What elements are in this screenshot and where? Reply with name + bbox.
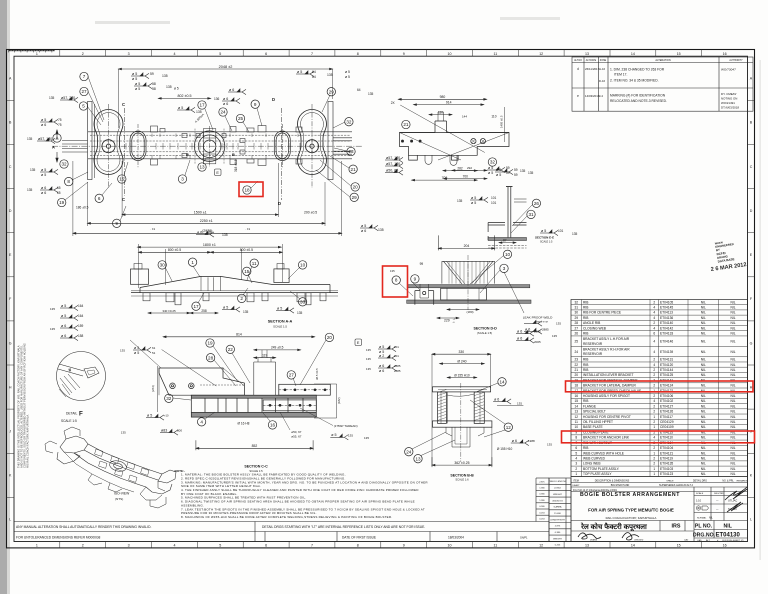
svg-text:CHECKED: CHECKED (634, 540, 644, 542)
svg-text:4: 4 (174, 544, 176, 548)
dimension 258 (190, 312, 218, 314)
svg-text:(264): (264) (151, 385, 155, 392)
svg-text:HOUSING ASSLY FOR SPIGOT: HOUSING ASSLY FOR SPIGOT (583, 394, 630, 398)
svg-text:NIL: NIL (730, 326, 735, 330)
svg-text:2: 2 (653, 446, 655, 450)
svg-text:SECTION B-B: SECTION B-B (450, 474, 474, 478)
weld symbol (196, 231, 214, 237)
svg-text:CE04109: CE04109 (660, 425, 674, 429)
svg-text:ø 6: ø 6 (517, 329, 522, 333)
weld symbol (40, 169, 58, 175)
grid band numbers top/bottom (60, 50, 702, 548)
weld symbol (60, 305, 78, 311)
dimension 700 (444, 178, 487, 180)
weld symbol (177, 107, 195, 113)
svg-text:31: 31 (528, 212, 534, 217)
svg-text:ø50, 65: ø50, 65 (386, 168, 398, 172)
svg-text:8. MACHINING OF Ø155-H10 SHAL: 8. MACHINING OF Ø155-H10 SHALL BE DONE A… (181, 515, 392, 519)
svg-text:65: 65 (57, 186, 61, 190)
svg-text:ø 6: ø 6 (197, 230, 202, 234)
callout A (53, 134, 61, 142)
svg-text:135: 135 (166, 85, 172, 89)
weld symbol (37, 138, 55, 144)
svg-text:ET04110: ET04110 (660, 436, 673, 440)
svg-text:BRACKET ASSLY R.H.FOR AIR: BRACKET ASSLY R.H.FOR AIR (583, 348, 630, 352)
callout 32 (345, 118, 353, 126)
svg-text:ET04102: ET04102 (660, 399, 673, 403)
svg-text:135: 135 (366, 367, 371, 371)
svg-text:135: 135 (556, 322, 561, 326)
svg-text:14: 14 (631, 544, 635, 548)
svg-text:135: 135 (27, 188, 33, 192)
svg-text:87: 87 (503, 239, 507, 243)
dimension 204 (438, 235, 494, 250)
dimension 980 (398, 98, 486, 100)
svg-text:135: 135 (364, 436, 369, 440)
plan view lower dimension lines (73, 161, 342, 236)
svg-text:ET04139: ET04139 (660, 350, 673, 354)
svg-text:NIL: NIL (730, 363, 735, 367)
svg-text:6: 6 (265, 52, 267, 56)
svg-text:TOP PLATE ASSLY: TOP PLATE ASSLY (583, 472, 612, 476)
svg-text:ø83: ø83 (161, 428, 167, 432)
svg-text:BRACKET FOR ANCHOR LINK: BRACKET FOR ANCHOR LINK (583, 436, 630, 440)
svg-text:· ±1: · ±1 (150, 227, 155, 231)
svg-text:16: 16 (574, 394, 578, 398)
svg-text:ET04125: ET04125 (660, 373, 673, 377)
svg-text:6: 6 (575, 446, 577, 450)
svg-text:D: D (272, 97, 275, 102)
svg-text:15 480: 15 480 (554, 513, 561, 515)
svg-text:ZONE: ZONE (600, 60, 607, 62)
weld symbol (524, 320, 542, 326)
svg-text:ø 5: ø 5 (297, 70, 302, 74)
svg-text:8: 8 (357, 544, 359, 548)
svg-text:ET04119: ET04119 (660, 457, 673, 461)
svg-text:ø 5: ø 5 (135, 87, 140, 91)
svg-text:110: 110 (438, 110, 443, 114)
dimension 292 (452, 170, 487, 172)
svg-text:UTLIAC: UTLIAC (728, 498, 737, 502)
svg-text:ø 5: ø 5 (345, 75, 350, 79)
callout 10 (503, 250, 511, 258)
dimension (437, 317, 459, 319)
svg-text:135: 135 (366, 348, 371, 352)
svg-text:110: 110 (491, 115, 496, 119)
centre cluster details (195, 129, 224, 164)
svg-text:DRG/TRD: DRG/TRD (714, 493, 724, 495)
svg-text:0.253: 0.253 (555, 545, 561, 547)
svg-text:119: 119 (262, 354, 267, 358)
svg-text:29: 29 (574, 316, 578, 320)
svg-text:ITEM 17.: ITEM 17. (614, 73, 627, 77)
svg-text:28: 28 (574, 321, 578, 325)
svg-text:WEIGHT: WEIGHT (553, 494, 562, 496)
svg-text:1: 1 (36, 52, 38, 56)
svg-text:2: 2 (653, 368, 655, 372)
svg-text:ø 5: ø 5 (496, 173, 501, 177)
svg-text:B: B (232, 152, 235, 157)
svg-text:9: 9 (403, 544, 405, 548)
svg-text:15: 15 (677, 544, 681, 548)
svg-text:1.380: 1.380 (539, 500, 545, 502)
svg-text:ø 5: ø 5 (174, 87, 179, 91)
svg-text:ø 5: ø 5 (61, 304, 66, 308)
red highlight box plan view 18 (239, 182, 263, 197)
svg-text:65: 65 (57, 191, 61, 195)
svg-text:NIL: NIL (730, 420, 735, 424)
svg-text:CLOSING WEB: CLOSING WEB (583, 326, 606, 330)
svg-text:NIL: NIL (730, 425, 735, 429)
svg-text:318 ±0.5: 318 ±0.5 (234, 159, 238, 172)
svg-text:---: --- (716, 500, 719, 503)
svg-text:19: 19 (59, 200, 65, 205)
svg-text:26: 26 (534, 201, 540, 206)
callout 18 (243, 186, 251, 194)
dimension 110 (429, 114, 452, 116)
svg-text:23: 23 (574, 358, 578, 362)
svg-text:RIB: RIB (583, 332, 588, 336)
svg-text:ET04133: ET04133 (660, 332, 673, 336)
svg-text:3: 3 (128, 544, 130, 548)
svg-text:ø 5: ø 5 (471, 196, 476, 200)
svg-text:ø 5: ø 5 (488, 166, 493, 170)
svg-text:0.580: 0.580 (539, 506, 545, 508)
callout 20 (325, 333, 333, 341)
svg-text:IRS: IRS (672, 524, 681, 530)
bottom notes strip (14, 478, 549, 542)
svg-text:814: 814 (236, 333, 242, 337)
svg-text:2. ITEM NO. 34 & 35 MODIFIED.: 2. ITEM NO. 34 & 35 MODIFIED. (610, 79, 659, 83)
svg-text:ø 5: ø 5 (361, 224, 366, 228)
svg-text:10: 10 (300, 263, 306, 268)
svg-text:ø 6: ø 6 (41, 186, 46, 190)
svg-text:29: 29 (329, 89, 335, 94)
callout 24 (219, 108, 227, 116)
svg-text:135: 135 (390, 269, 395, 273)
svg-text:NIL: NIL (730, 462, 735, 466)
svg-text:ALT.NO: ALT.NO (574, 59, 582, 62)
svg-text:ET04120: ET04120 (660, 363, 673, 367)
svg-text:Ø 16 H8: Ø 16 H8 (238, 422, 250, 426)
callout 1 (188, 258, 196, 266)
svg-text:330: 330 (458, 350, 464, 354)
svg-text:SCALE 1:5: SCALE 1:5 (273, 325, 287, 329)
weld symbol (131, 73, 149, 79)
svg-text:159: 159 (78, 324, 84, 328)
svg-text:16: 16 (723, 544, 727, 548)
svg-text:G: G (750, 341, 753, 345)
svg-text:e: e (577, 94, 579, 98)
callout 3 (500, 264, 508, 272)
svg-text:ET04104: ET04104 (660, 446, 673, 450)
weld symbol (330, 434, 348, 440)
svg-text:SCALE 1:5: SCALE 1:5 (61, 419, 77, 423)
svg-text:11: 11 (494, 544, 498, 548)
svg-text:ET04106: ET04106 (660, 394, 673, 398)
svg-text:F: F (79, 411, 83, 418)
svg-text:DETAIL: DETAIL (66, 412, 77, 416)
svg-text:24 862: 24 862 (554, 488, 561, 490)
svg-text:19: 19 (207, 341, 213, 346)
svg-text:27: 27 (289, 373, 295, 378)
weld symbol (493, 398, 511, 404)
svg-text:4: 4 (653, 436, 655, 440)
svg-text:रेल कोच फैक्टरी कपूरथला: रेल कोच फैक्टरी कपूरथला (580, 522, 648, 532)
weld symbol (378, 355, 396, 361)
svg-text:13: 13 (585, 544, 589, 548)
svg-text:8: 8 (575, 436, 577, 440)
dimension 2048 ±2 (119, 68, 333, 70)
svg-text:58: 58 (152, 87, 156, 91)
svg-text:ET04140: ET04140 (660, 321, 673, 325)
svg-text:1: 1 (653, 467, 655, 471)
svg-text:NIL: NIL (701, 457, 706, 461)
svg-text:ø57, 100: ø57, 100 (386, 156, 400, 160)
svg-text:135: 135 (457, 199, 463, 203)
svg-text:27: 27 (81, 89, 87, 94)
callout 8 (65, 177, 73, 185)
svg-text:ø 6: ø 6 (61, 334, 66, 338)
callout 23 (347, 147, 355, 155)
callout 28 (206, 354, 214, 362)
svg-text:NIL: NIL (701, 394, 706, 398)
dimension 2250 ±1 (88, 222, 326, 224)
svg-text:FOR UNTOLERANCED DIMENSIONS RE: FOR UNTOLERANCED DIMENSIONS REFER M0000G… (16, 536, 101, 540)
svg-text:ET04113: ET04113 (660, 311, 673, 315)
callout 9 (411, 275, 419, 283)
svg-text:4: 4 (174, 52, 176, 56)
svg-text:G: G (9, 341, 12, 345)
svg-text:ø 6: ø 6 (494, 397, 499, 401)
svg-text:ø 6: ø 6 (223, 102, 228, 106)
svg-text:32: 32 (166, 396, 172, 401)
svg-text:RIB: RIB (583, 316, 588, 320)
svg-text:ET04136: ET04136 (660, 316, 673, 320)
svg-text:DRAFT: DRAFT (572, 484, 580, 487)
svg-text:135: 135 (27, 137, 33, 141)
svg-text:31: 31 (574, 306, 578, 310)
dimension 330 (432, 353, 491, 355)
svg-text:59: 59 (514, 168, 518, 172)
svg-text:2: 2 (82, 544, 84, 548)
svg-text:SN/P1: SN/P1 (520, 536, 528, 540)
svg-text:135: 135 (50, 307, 55, 311)
svg-text:2048 ±2: 2048 ±2 (219, 65, 233, 69)
svg-text:RIB: RIB (583, 306, 588, 310)
svg-text:NIL: NIL (730, 321, 735, 325)
svg-text:258: 258 (201, 309, 207, 313)
svg-text:DY. CME/D/: DY. CME/D/ (721, 92, 737, 96)
svg-text:M/S RAIL COACH FACTORY, KAPURT: M/S RAIL COACH FACTORY, KAPURTHALA. (26, 414, 30, 468)
svg-text:32: 32 (61, 162, 67, 167)
callout 27 (287, 371, 295, 379)
svg-text:4: 4 (653, 326, 655, 330)
svg-text:135: 135 (368, 92, 374, 96)
svg-text:ø 5: ø 5 (41, 173, 46, 177)
svg-text:ø 5: ø 5 (178, 106, 183, 110)
leader lines plan callouts (65, 77, 351, 222)
svg-text:B: B (186, 152, 189, 157)
svg-text:AUTHORITY: AUTHORITY (729, 59, 743, 62)
weld symbol (495, 169, 513, 175)
svg-text:NOTING ON: NOTING ON (721, 97, 737, 101)
svg-text:17: 17 (193, 304, 199, 309)
svg-text:249 ±0.5: 249 ±0.5 (271, 346, 284, 350)
svg-text:DETAIL DRG: DETAIL DRG (693, 480, 707, 483)
svg-text:DRAWN: DRAWN (590, 539, 598, 542)
svg-text:DATE OF FIRST ISSUE: DATE OF FIRST ISSUE (342, 536, 376, 540)
callout 20 (351, 183, 359, 191)
svg-text:21: 21 (351, 167, 357, 172)
svg-text:SECTION E-E: SECTION E-E (535, 236, 554, 240)
svg-text:NIL: NIL (701, 358, 706, 362)
svg-text:RAIL COACH FACTORY, KAPURTHALA: RAIL COACH FACTORY, KAPURTHALA (606, 516, 657, 520)
callout 11 (250, 259, 258, 267)
svg-text:135: 135 (572, 232, 578, 236)
svg-text:802 ±0.5: 802 ±0.5 (178, 94, 192, 98)
dimension 814 (163, 336, 315, 338)
svg-text:ø 5: ø 5 (488, 171, 493, 175)
callout 15 (243, 267, 251, 275)
svg-text:51: 51 (152, 351, 156, 355)
svg-text:NIL: NIL (730, 399, 735, 403)
svg-text:d: d (577, 67, 579, 71)
svg-text:D-16: D-16 (599, 79, 606, 83)
svg-text:ø57, 100: ø57, 100 (386, 162, 400, 166)
svg-text:135: 135 (327, 73, 333, 77)
svg-text:J-4: J-4 (599, 94, 603, 98)
svg-text:ET04126: ET04126 (660, 410, 673, 414)
svg-text:ISO-VIEW: ISO-VIEW (114, 492, 130, 496)
callout 3 (178, 175, 186, 183)
svg-text:NIL: NIL (701, 373, 706, 377)
svg-text:33: 33 (300, 299, 306, 304)
svg-text:852: 852 (252, 444, 258, 448)
svg-text:INSTALLATION LEVER BRACKET: INSTALLATION LEVER BRACKET (583, 373, 633, 377)
red highlight box rows 18-17 (566, 381, 754, 392)
svg-text:ET04124: ET04124 (660, 384, 673, 388)
svg-text:75: 75 (58, 118, 62, 122)
callout 17 (192, 302, 200, 310)
svg-text:ø 6: ø 6 (379, 369, 384, 373)
svg-text:ET04146: ET04146 (660, 339, 673, 343)
callout 2 (238, 294, 246, 302)
svg-text:12: 12 (506, 425, 512, 430)
svg-text:135: 135 (528, 171, 534, 175)
svg-text:NIL: NIL (701, 399, 706, 403)
svg-text:ø 6: ø 6 (379, 364, 384, 368)
svg-text:+10: +10 (164, 414, 169, 418)
section cut C (124, 108, 126, 196)
weld symbol (487, 167, 505, 173)
svg-text:ø 5: ø 5 (379, 345, 384, 349)
svg-text:FLANGE: FLANGE (583, 404, 597, 408)
svg-text:6: 6 (653, 332, 655, 336)
svg-text:LENGTH/WTH: LENGTH/WTH (550, 519, 565, 521)
svg-text:2: 2 (653, 300, 655, 304)
svg-text:101: 101 (558, 229, 564, 233)
svg-text:64: 64 (357, 88, 361, 92)
svg-text:DT./6/03/2018: DT./6/03/2018 (721, 106, 739, 110)
weld symbol (378, 365, 396, 371)
svg-text:E: E (357, 341, 360, 345)
svg-text:12: 12 (539, 52, 543, 56)
svg-text:800 ±0.5: 800 ±0.5 (168, 248, 181, 252)
callout 30 (158, 261, 166, 269)
rubber stamp: engineered/data base (715, 239, 737, 264)
plan view oval opening (130, 124, 146, 168)
svg-text:5: 5 (575, 451, 577, 455)
dimension 1800 ±1 (138, 246, 282, 248)
svg-text:8: 8 (395, 278, 398, 283)
svg-text:BASE PLATE: BASE PLATE (583, 425, 603, 429)
E marker box (215, 169, 222, 176)
svg-text:D: D (750, 209, 753, 213)
weld symbol (222, 306, 240, 312)
svg-text:28: 28 (208, 355, 214, 360)
weld symbol (40, 119, 58, 125)
dimension 802 ±0.5 (158, 98, 210, 100)
svg-text:NIL: NIL (701, 339, 706, 343)
svg-text:H-16: H-16 (599, 67, 606, 71)
svg-text:1. DIM. 238 CHANGED TO 263 FOR: 1. DIM. 238 CHANGED TO 263 FOR (610, 68, 665, 72)
svg-text:NIL: NIL (701, 436, 706, 440)
weld symbol (511, 440, 529, 446)
svg-text:2: 2 (653, 321, 655, 325)
svg-text:Ø 155 H10: Ø 155 H10 (454, 373, 470, 377)
svg-text:1: 1 (36, 544, 38, 548)
svg-text:SCALE 1:6: SCALE 1:6 (455, 478, 469, 482)
weld symbol (222, 98, 240, 104)
weld symbol (276, 307, 294, 313)
svg-text:NIL: NIL (701, 350, 706, 354)
svg-text:135: 135 (50, 327, 55, 331)
svg-text:J: J (9, 430, 11, 434)
svg-text:NIL: NIL (701, 321, 706, 325)
svg-text:135: 135 (517, 402, 522, 406)
svg-text:NIL: NIL (730, 368, 735, 372)
svg-text:58: 58 (152, 82, 156, 86)
svg-text:2: 2 (82, 52, 84, 56)
svg-text:ø55, 67: ø55, 67 (291, 435, 302, 439)
svg-text:ø 5: ø 5 (471, 201, 476, 205)
callout 22 (226, 345, 234, 353)
dimension (2970) (73, 232, 342, 234)
svg-text:1: 1 (191, 260, 194, 265)
dimension (499, 242, 516, 244)
dimension 800 ±0.5 (211, 251, 283, 253)
svg-text:1988: 1988 (528, 439, 535, 443)
svg-text:NIL: NIL (730, 451, 735, 455)
dimension 119 (254, 357, 276, 359)
svg-text:21: 21 (403, 122, 409, 127)
svg-text:LONG WEB: LONG WEB (583, 462, 601, 466)
svg-text:SCALE: SCALE (696, 492, 704, 495)
svg-text:18: 18 (244, 188, 250, 193)
svg-text:14: 14 (574, 404, 578, 408)
svg-text:164: 164 (78, 314, 84, 318)
svg-text:ø 5: ø 5 (147, 413, 152, 417)
svg-text:RIB: RIB (583, 363, 588, 367)
svg-text:4: 4 (653, 363, 655, 367)
dimension 340 ±0.25 (148, 312, 190, 314)
svg-text:2: 2 (653, 410, 655, 414)
svg-text:17: 17 (199, 103, 205, 108)
svg-text:25: 25 (574, 339, 578, 343)
parts list table (571, 300, 748, 477)
svg-text:NIL: NIL (730, 306, 735, 310)
